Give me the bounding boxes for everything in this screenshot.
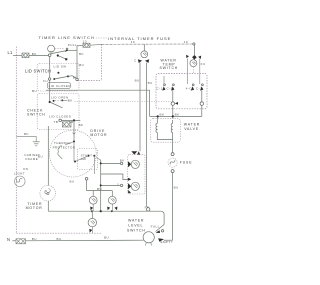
main wire lid switch to valve bbox=[46, 89, 150, 91]
valve feed bus bbox=[150, 115, 202, 117]
valve output join bbox=[157, 132, 172, 139]
bus 10 top bbox=[102, 43, 193, 45]
svg-text:BU: BU bbox=[148, 81, 153, 85]
dashed link bbox=[55, 100, 61, 102]
svg-text:INTERVAL TIMER FUSE: INTERVAL TIMER FUSE bbox=[108, 36, 171, 41]
svg-text:FUSE: FUSE bbox=[180, 160, 193, 164]
solenoid A bbox=[131, 160, 139, 168]
svg-text:LID CLOSED: LID CLOSED bbox=[49, 114, 72, 118]
fuse wire down bbox=[172, 173, 174, 241]
connector plug P4 bbox=[16, 239, 26, 244]
start switch dashed box bbox=[78, 149, 98, 170]
svg-text:Y: Y bbox=[117, 182, 119, 186]
drive motor circle bbox=[49, 130, 96, 177]
svg-text:WATER: WATER bbox=[128, 218, 144, 222]
terminal circle bbox=[76, 78, 78, 80]
timer cam C right bbox=[193, 45, 195, 55]
on light bulb bbox=[14, 176, 25, 187]
console partition dashed line left bbox=[15, 47, 17, 234]
svg-text:BK: BK bbox=[160, 113, 165, 117]
svg-text:C-1: C-1 bbox=[157, 87, 163, 91]
ground symbol bbox=[33, 142, 40, 146]
svg-text:PROTECTOR: PROTECTOR bbox=[53, 145, 76, 149]
terminal circle bus 10 bbox=[193, 43, 195, 45]
empty contact bbox=[158, 238, 164, 241]
leader dashes to INTERVAL TIMER FUSE bbox=[96, 37, 107, 39]
lid switch riser from main wire bbox=[149, 90, 151, 116]
timer motor riser bbox=[47, 126, 49, 185]
svg-text:BU: BU bbox=[104, 236, 109, 240]
console partition dashed line bottom bbox=[16, 232, 101, 234]
motor winding bbox=[65, 142, 74, 146]
connector plug P1 bbox=[22, 53, 29, 58]
wire diagonal to junction square bbox=[59, 56, 66, 59]
solenoid top arrow bbox=[131, 151, 137, 154]
solenoid A arrow bbox=[128, 161, 131, 167]
svg-text:TB: TB bbox=[54, 120, 59, 124]
svg-text:MOTOR: MOTOR bbox=[26, 206, 43, 210]
fuse wire corner to empty contact bbox=[164, 239, 173, 241]
solenoid bottom arrow bbox=[128, 190, 131, 194]
svg-text:BU: BU bbox=[135, 79, 140, 83]
timer cam S bbox=[108, 196, 116, 204]
timer motor coil bbox=[45, 189, 50, 195]
solenoid mid feed bbox=[101, 174, 128, 180]
junction dot bbox=[73, 119, 75, 121]
cam B drop into solenoid box bbox=[137, 151, 140, 154]
svg-text:FULL: FULL bbox=[151, 224, 160, 228]
contact arrows under cam C bbox=[89, 229, 92, 233]
pivot timer line switch bbox=[48, 54, 51, 57]
blade lid switch bbox=[54, 76, 68, 79]
svg-text:SWITCH: SWITCH bbox=[160, 66, 179, 70]
cam S drop bbox=[111, 191, 113, 197]
riser wire bbox=[76, 46, 78, 79]
svg-text:BU: BU bbox=[79, 63, 84, 67]
svg-text:VALVE: VALVE bbox=[184, 127, 199, 131]
svg-text:MOTOR: MOTOR bbox=[90, 133, 107, 137]
svg-text:LEVEL: LEVEL bbox=[128, 224, 143, 228]
svg-text:BU: BU bbox=[32, 237, 37, 241]
svg-text:FU: FU bbox=[43, 79, 48, 83]
svg-text:SWITCH: SWITCH bbox=[127, 229, 146, 233]
connector plug P3 bbox=[62, 122, 71, 127]
N bus to water level switch bbox=[26, 239, 144, 242]
svg-text:BK: BK bbox=[120, 158, 125, 162]
svg-text:LIGHT: LIGHT bbox=[14, 171, 25, 175]
lid switch blade drop bbox=[49, 57, 51, 103]
svg-text:BU: BU bbox=[70, 179, 75, 183]
contact feed wires into temp switch bbox=[187, 59, 189, 85]
svg-text:10: 10 bbox=[131, 40, 135, 44]
valve coil 2 bbox=[171, 120, 173, 132]
contact arrows under cam R bbox=[90, 207, 93, 211]
contact dot upper bbox=[57, 72, 59, 74]
timer motor bottom wire bbox=[47, 201, 49, 211]
svg-text:L1: L1 bbox=[8, 50, 14, 55]
lid switch dashed box bbox=[37, 64, 79, 92]
wire contact to riser bbox=[68, 49, 77, 51]
terminal side mark bbox=[175, 102, 178, 105]
contact dot bbox=[53, 78, 55, 80]
fuse terminal bottom bbox=[171, 170, 174, 173]
timer cam C bbox=[88, 218, 96, 226]
switch blade timer line switch bbox=[50, 51, 65, 54]
blade check switch bbox=[50, 102, 63, 108]
svg-text:BK: BK bbox=[24, 132, 29, 136]
svg-text:BK: BK bbox=[79, 123, 84, 127]
svg-text:FRAME: FRAME bbox=[25, 157, 38, 161]
contact dot bbox=[53, 100, 55, 102]
timer cam B bbox=[143, 44, 145, 51]
valve coil 1 bbox=[156, 120, 158, 132]
contact PULL bbox=[65, 49, 68, 52]
solenoid B bbox=[131, 182, 139, 190]
timer cam R bbox=[89, 196, 97, 204]
svg-text:PULL: PULL bbox=[68, 43, 77, 47]
shift solenoid dashed box bbox=[128, 155, 145, 194]
timer partition dashed horizontal bbox=[78, 80, 102, 82]
svg-text:LID CLOSED: LID CLOSED bbox=[49, 84, 72, 88]
full contact bbox=[156, 230, 160, 233]
wire inside motor bbox=[73, 142, 75, 162]
pivot lid switch bbox=[48, 78, 50, 80]
contact dot bbox=[67, 75, 69, 77]
wire lower bbox=[62, 119, 81, 121]
svg-text:SWITCH: SWITCH bbox=[27, 112, 46, 116]
junction square bbox=[65, 58, 67, 60]
svg-text:LID SW: LID SW bbox=[54, 64, 67, 68]
contact dot bbox=[61, 99, 63, 101]
right riser bbox=[100, 160, 102, 211]
water level switch body bbox=[143, 232, 154, 243]
connector plug P2 bbox=[83, 43, 90, 47]
svg-text:LID SWITCH: LID SWITCH bbox=[25, 68, 51, 73]
svg-text:EMPTY: EMPTY bbox=[161, 240, 174, 244]
wire L1 feed bbox=[13, 55, 22, 57]
cam A dashed link bbox=[55, 48, 64, 50]
svg-text:C: C bbox=[134, 59, 137, 63]
junction dot check switch bbox=[49, 101, 51, 103]
wire into drive motor bbox=[73, 120, 75, 141]
svg-text:BK: BK bbox=[68, 99, 73, 103]
wire drop to water level feed bbox=[146, 63, 148, 207]
contact arrows under cam S bbox=[107, 207, 110, 211]
fuse terminal top bbox=[171, 153, 174, 156]
water valve dashed box bbox=[151, 119, 181, 143]
solenoid B arrow bbox=[128, 183, 131, 189]
bus junction dots bbox=[91, 210, 93, 212]
svg-text:BU: BU bbox=[32, 89, 37, 93]
junction dot bbox=[57, 54, 59, 56]
wire connector to bus 10 bbox=[90, 43, 102, 46]
timer motor circle bbox=[40, 185, 56, 201]
svg-text:BU: BU bbox=[73, 76, 78, 80]
svg-text:FU: FU bbox=[201, 62, 206, 66]
svg-text:BK: BK bbox=[79, 52, 84, 56]
timer partition dashed vertical bbox=[101, 44, 103, 80]
check switch dashed box bbox=[37, 94, 79, 130]
fuse body bbox=[168, 158, 177, 167]
motor bottom bus bbox=[87, 190, 113, 192]
motor link to right riser bbox=[96, 158, 101, 161]
cam C drop bbox=[91, 211, 93, 218]
svg-text:N: N bbox=[7, 237, 10, 242]
temp switch terminals bbox=[172, 91, 174, 102]
timer cam A bbox=[48, 45, 55, 52]
water temp switch dashed box bbox=[156, 74, 207, 109]
svg-text:BK: BK bbox=[175, 113, 180, 117]
terminal circle bbox=[59, 119, 62, 122]
svg-text:10: 10 bbox=[184, 40, 188, 44]
start switch contact bbox=[88, 155, 90, 157]
solenoid feed terminals bbox=[120, 162, 122, 164]
svg-text:BU: BU bbox=[57, 237, 62, 241]
svg-text:LID OPEN: LID OPEN bbox=[51, 95, 69, 99]
svg-text:BU: BU bbox=[174, 186, 179, 190]
partition dashed mid horizontal bbox=[75, 101, 172, 103]
label box LID CLOSED bbox=[47, 83, 70, 89]
wire to connector bbox=[77, 45, 83, 47]
wire to timer line switch bbox=[29, 55, 48, 57]
motor bottom terminal bbox=[85, 178, 88, 181]
wire drop BK left bbox=[139, 63, 141, 152]
wire to BU terminal bbox=[68, 76, 77, 79]
svg-text:WATER: WATER bbox=[184, 122, 200, 126]
N bus bbox=[12, 240, 16, 242]
water level feed terminal bbox=[147, 206, 149, 208]
wire stub BK bbox=[62, 99, 67, 101]
cam R drop bbox=[92, 191, 94, 197]
svg-text:BU: BU bbox=[97, 187, 102, 191]
